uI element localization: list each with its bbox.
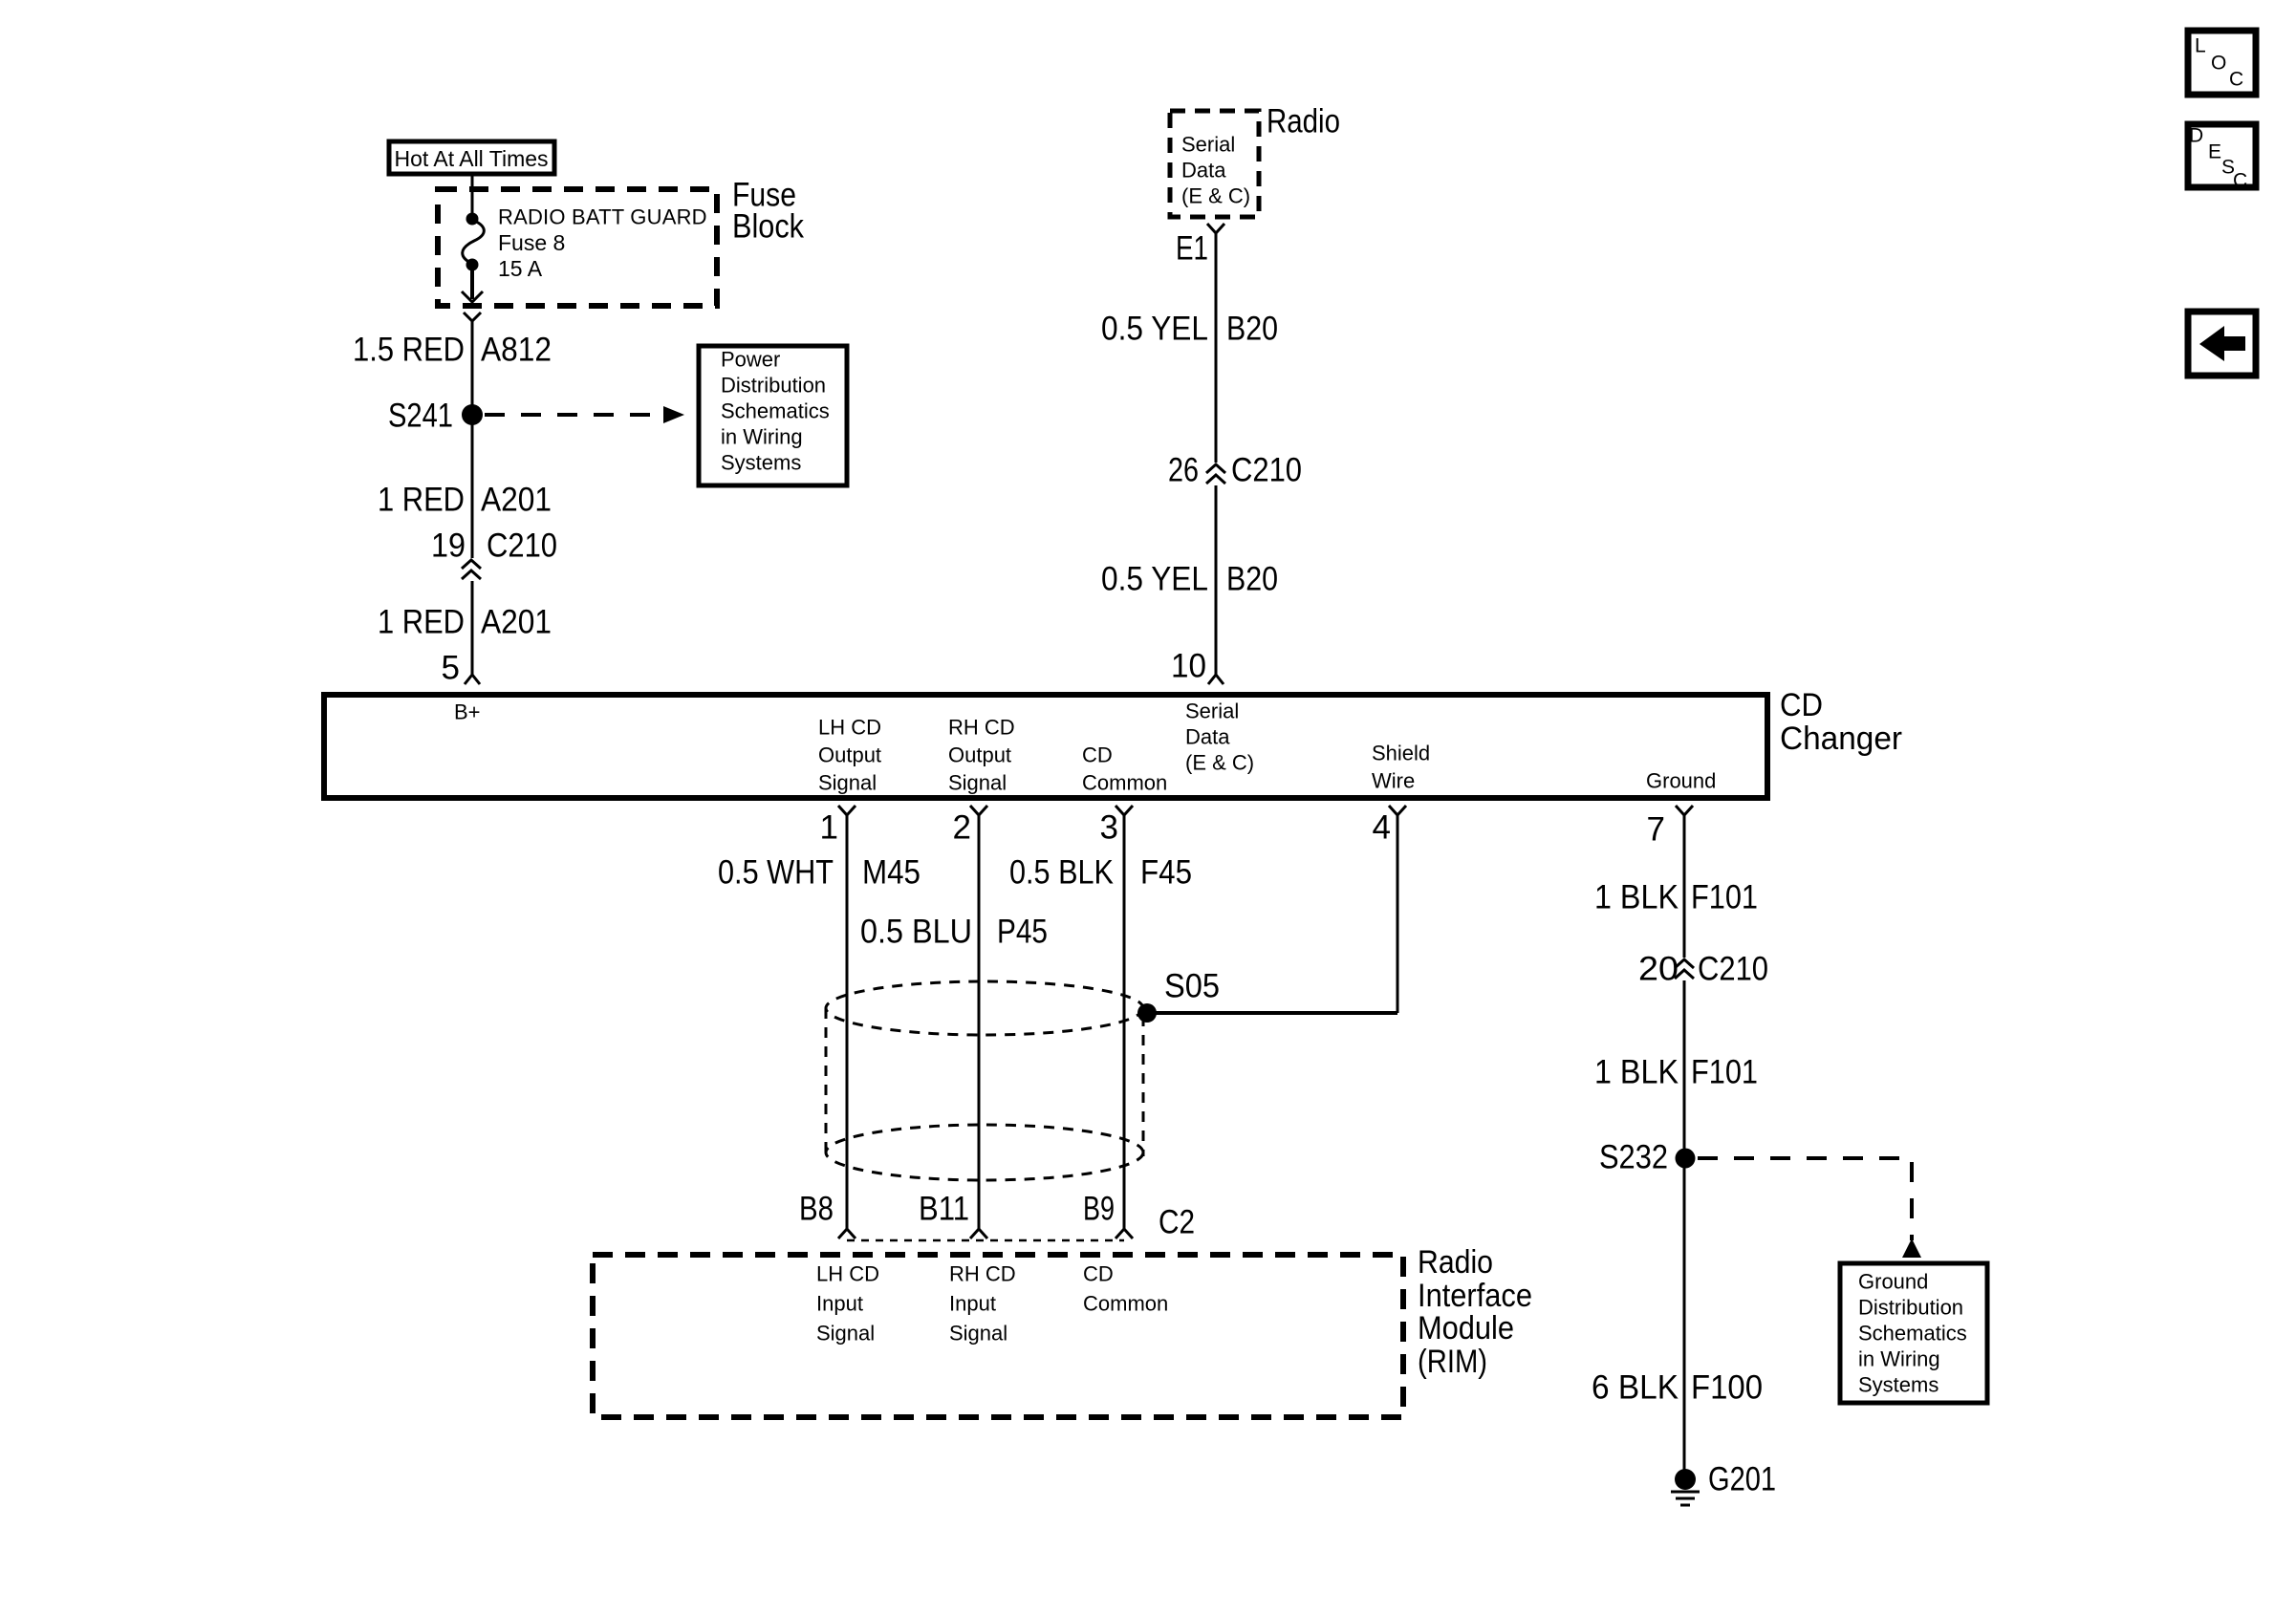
wire 7 ground middle 1 BLK F101 — [1683, 980, 1686, 1479]
svg-text:0.5 YEL: 0.5 YEL — [1101, 561, 1208, 598]
svg-text:Ground: Ground — [1646, 769, 1716, 793]
svg-text:(E & C): (E & C) — [1181, 184, 1250, 208]
svg-text:Systems: Systems — [721, 451, 801, 475]
reference box Ground Distribution Schematics in Wiring Systems — [1840, 1263, 1987, 1403]
svg-text:1 RED: 1 RED — [378, 482, 465, 519]
svg-text:Distribution: Distribution — [1858, 1296, 1963, 1320]
svg-text:(E & C): (E & C) — [1185, 751, 1254, 775]
svg-text:Output: Output — [948, 743, 1011, 767]
svg-text:Hot At All Times: Hot At All Times — [394, 146, 548, 171]
wire 1 LH CD output 0.5 WHT M45 — [846, 815, 849, 1230]
pin 2 connector — [953, 806, 987, 847]
svg-text:G201: G201 — [1708, 1461, 1776, 1498]
svg-text:S241: S241 — [388, 398, 453, 435]
svg-text:Changer: Changer — [1780, 721, 1902, 757]
svg-text:2: 2 — [953, 809, 971, 847]
label 0.5 BLU P45 — [860, 914, 1048, 951]
svg-text:Signal: Signal — [949, 1322, 1007, 1346]
svg-text:RH CD: RH CD — [948, 716, 1015, 740]
svg-text:(RIM): (RIM) — [1418, 1344, 1487, 1380]
wire 4 shield wire — [1397, 815, 1399, 1013]
svg-text:1 BLK: 1 BLK — [1594, 1054, 1679, 1091]
pin B8 connector — [799, 1191, 856, 1239]
label Fuse Block — [732, 177, 804, 246]
label CD Changer — [1780, 687, 1902, 757]
wire 1 RED A201 lower — [471, 581, 474, 675]
wire 7 ground upper 1 BLK F101 — [1683, 815, 1686, 958]
svg-text:B9: B9 — [1083, 1191, 1115, 1228]
label 1 BLK F101 lower — [1594, 1054, 1758, 1091]
svg-text:F101: F101 — [1691, 879, 1758, 916]
svg-text:5: 5 — [442, 650, 460, 687]
pin 1 connector — [820, 806, 856, 847]
svg-text:Fuse 8: Fuse 8 — [498, 230, 565, 255]
label 0.5 BLK F45 — [1009, 854, 1192, 892]
svg-text:Data: Data — [1181, 159, 1226, 183]
svg-text:0.5 BLU: 0.5 BLU — [860, 914, 972, 951]
label 1.5 RED A812 — [353, 332, 552, 369]
svg-text:1 BLK: 1 BLK — [1594, 879, 1679, 916]
svg-text:CD: CD — [1780, 687, 1823, 723]
label Radio — [1267, 103, 1340, 140]
svg-text:CD: CD — [1083, 1262, 1114, 1286]
svg-text:Systems: Systems — [1858, 1373, 1939, 1397]
svg-text:in Wiring: in Wiring — [1858, 1347, 1940, 1371]
svg-text:B11: B11 — [919, 1191, 969, 1228]
connector C210 pin 20 — [1638, 951, 1768, 988]
wire hot feed into fuse block — [471, 176, 474, 216]
svg-text:Radio: Radio — [1418, 1244, 1493, 1281]
svg-text:Distribution: Distribution — [721, 374, 826, 398]
svg-text:Power: Power — [721, 348, 780, 372]
label 0.5 YEL B20 upper — [1101, 311, 1278, 348]
pin B11 connector — [919, 1191, 987, 1239]
label 0.5 YEL B20 lower — [1101, 561, 1278, 598]
svg-text:0.5 BLK: 0.5 BLK — [1009, 854, 1114, 892]
pin label Shield Wire — [1372, 742, 1430, 793]
pin label LH CD Output Signal — [818, 716, 881, 795]
svg-text:C2: C2 — [1159, 1204, 1195, 1241]
wire 3 CD common 0.5 BLK F45 — [1123, 815, 1126, 1230]
svg-text:26: 26 — [1168, 452, 1199, 489]
pin 10 connector — [1171, 648, 1224, 685]
svg-text:20: 20 — [1638, 951, 1679, 988]
svg-text:LH CD: LH CD — [816, 1262, 879, 1286]
pin 5 connector — [442, 650, 480, 687]
label Radio Interface Module (RIM) — [1418, 1244, 1532, 1380]
label 1 RED A201 lower — [378, 604, 552, 641]
svg-text:B8: B8 — [799, 1191, 834, 1228]
pin B+ label — [454, 700, 481, 724]
svg-text:Module: Module — [1418, 1310, 1514, 1346]
svg-text:10: 10 — [1171, 648, 1206, 685]
label Hot At All Times — [389, 141, 554, 174]
wire 1 RED A201 upper — [471, 420, 474, 558]
svg-text:S05: S05 — [1164, 968, 1220, 1005]
svg-text:Ground: Ground — [1858, 1270, 1928, 1294]
pin label CD Common — [1082, 743, 1167, 795]
label 6 BLK F100 — [1592, 1369, 1763, 1407]
svg-text:P45: P45 — [997, 914, 1048, 951]
pin 7 connector — [1647, 806, 1693, 849]
dashed reference wire to Ground Distribution — [1698, 1158, 1921, 1258]
svg-text:Input: Input — [949, 1292, 996, 1316]
svg-text:Output: Output — [818, 743, 881, 767]
svg-text:C: C — [2233, 170, 2247, 192]
svg-text:in Wiring: in Wiring — [721, 425, 803, 449]
svg-text:Signal: Signal — [816, 1322, 875, 1346]
fuse block dashed box — [438, 189, 717, 306]
svg-text:F100: F100 — [1691, 1369, 1763, 1407]
svg-text:15 A: 15 A — [498, 256, 543, 281]
reference box Power Distribution Schematics in Wiring Systems — [699, 346, 847, 485]
svg-text:A812: A812 — [481, 332, 552, 369]
svg-text:Radio: Radio — [1267, 103, 1340, 140]
svg-text:LH CD: LH CD — [818, 716, 881, 740]
svg-text:Wire: Wire — [1372, 769, 1415, 793]
svg-text:C: C — [2229, 69, 2243, 91]
svg-text:0.5 YEL: 0.5 YEL — [1101, 311, 1208, 348]
svg-text:Schematics: Schematics — [1858, 1322, 1967, 1346]
ground G201 — [1671, 1461, 1776, 1506]
RIM pin label CD Common — [1083, 1262, 1168, 1316]
pin E1 connector — [1176, 224, 1224, 268]
pin label RH CD Output Signal — [948, 716, 1015, 795]
shield dashed cylinder bottom ellipse — [826, 1125, 1143, 1180]
icon back arrow box — [2188, 312, 2256, 376]
pin 4 connector — [1373, 806, 1406, 847]
connector C210 pin 19 — [431, 528, 557, 580]
svg-text:1.5 RED: 1.5 RED — [353, 332, 465, 369]
RIM pin label RH CD Input Signal — [949, 1262, 1016, 1346]
svg-text:Shield: Shield — [1372, 742, 1430, 765]
shield dashed cylinder top ellipse — [826, 981, 1143, 1035]
label 0.5 WHT M45 — [718, 854, 921, 892]
wire fuse output with arrow — [462, 268, 483, 302]
connector C2 dashed face line — [847, 1204, 1195, 1241]
pin 3 connector — [1100, 806, 1133, 847]
pin label Serial Data (E & C) — [1185, 700, 1254, 775]
svg-text:4: 4 — [1373, 809, 1391, 847]
shield dashed cylinder right side — [1142, 1016, 1145, 1156]
svg-text:19: 19 — [431, 528, 466, 565]
svg-text:C210: C210 — [1231, 452, 1302, 489]
svg-text:Serial: Serial — [1181, 133, 1235, 157]
svg-text:B20: B20 — [1226, 561, 1278, 598]
svg-text:CD: CD — [1082, 743, 1113, 767]
svg-text:1 RED: 1 RED — [378, 604, 465, 641]
connector C210 pin 26 — [1168, 452, 1302, 489]
svg-text:E1: E1 — [1176, 230, 1208, 268]
svg-text:Schematics: Schematics — [721, 399, 830, 423]
svg-text:Block: Block — [732, 208, 804, 246]
svg-text:Signal: Signal — [948, 771, 1007, 795]
svg-text:RH CD: RH CD — [949, 1262, 1016, 1286]
svg-text:D: D — [2189, 125, 2203, 147]
svg-text:S232: S232 — [1599, 1139, 1668, 1176]
pin B9 connector — [1083, 1191, 1133, 1239]
icon LOC box — [2188, 31, 2256, 95]
svg-text:B20: B20 — [1226, 311, 1278, 348]
svg-text:3: 3 — [1100, 809, 1118, 847]
connector at fuse block exit — [464, 312, 481, 321]
svg-text:0.5 WHT: 0.5 WHT — [718, 854, 834, 892]
svg-text:6 BLK: 6 BLK — [1592, 1369, 1679, 1407]
svg-text:7: 7 — [1647, 811, 1665, 849]
svg-text:L: L — [2195, 35, 2206, 57]
svg-text:Serial: Serial — [1185, 700, 1239, 723]
svg-text:A201: A201 — [481, 604, 552, 641]
svg-text:E: E — [2208, 141, 2221, 163]
splice S241 — [388, 398, 483, 435]
RIM dashed box — [593, 1255, 1403, 1417]
svg-text:Interface: Interface — [1418, 1278, 1532, 1314]
svg-text:A201: A201 — [481, 482, 552, 519]
radio dashed box — [1170, 111, 1259, 217]
wire 0.5 YEL B20 lower — [1215, 485, 1218, 675]
label 1 BLK F101 — [1594, 879, 1758, 916]
wire 1.5 RED A812 — [471, 321, 474, 409]
shield dashed cylinder left side — [825, 1008, 828, 1152]
fuse F8 RADIO BATT GUARD 15 A — [463, 205, 707, 282]
svg-text:1: 1 — [820, 809, 838, 847]
svg-text:Signal: Signal — [818, 771, 877, 795]
pin label Ground — [1646, 769, 1716, 793]
svg-text:M45: M45 — [862, 854, 921, 892]
RIM pin label LH CD Input Signal — [816, 1262, 879, 1346]
svg-text:Input: Input — [816, 1292, 863, 1316]
svg-text:Common: Common — [1083, 1292, 1168, 1316]
svg-text:C210: C210 — [487, 528, 557, 565]
wire 0.5 YEL B20 upper — [1215, 233, 1218, 463]
label 1 RED A201 — [378, 482, 552, 519]
splice S232 — [1599, 1139, 1696, 1176]
svg-text:O: O — [2211, 53, 2226, 75]
wire 2 RH CD output 0.5 BLU P45 — [978, 815, 981, 1230]
splice S05 — [1137, 968, 1220, 1023]
svg-text:Common: Common — [1082, 771, 1167, 795]
icon DESC box — [2188, 124, 2256, 192]
CD Changer box — [324, 695, 1767, 798]
svg-text:RADIO BATT GUARD: RADIO BATT GUARD — [498, 205, 707, 229]
svg-text:F101: F101 — [1691, 1054, 1758, 1091]
svg-text:B+: B+ — [454, 700, 481, 724]
wire from S05 to shield pin 4 — [1147, 1011, 1397, 1015]
svg-text:F45: F45 — [1140, 854, 1192, 892]
svg-text:Data: Data — [1185, 725, 1230, 749]
dashed reference arrow to Power Distribution — [485, 406, 684, 423]
svg-text:C210: C210 — [1698, 951, 1768, 988]
